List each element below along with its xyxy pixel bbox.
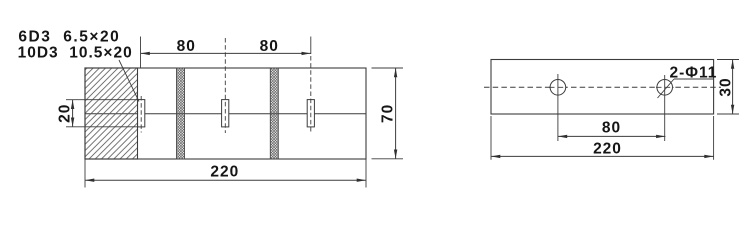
20 dim extension line top xyxy=(66,99,138,101)
svg-text:10D3 10.5×20: 10D3 10.5×20 xyxy=(18,44,133,61)
svg-text:80: 80 xyxy=(260,38,279,55)
right view dashed centerline xyxy=(484,86,721,88)
left view horizontal centerline xyxy=(85,113,366,115)
svg-text:6D3 6.5×20: 6D3 6.5×20 xyxy=(18,29,120,46)
top dim arrow right xyxy=(302,52,311,55)
220 left extension left xyxy=(84,159,86,188)
220 left dim line xyxy=(85,179,366,181)
80 right arrow left xyxy=(558,135,567,138)
70 dim arrow down xyxy=(394,150,397,159)
svg-text:30: 30 xyxy=(718,77,735,96)
slot 3 xyxy=(307,100,314,127)
20 dim line xyxy=(72,100,74,127)
80 right dim line xyxy=(558,135,666,137)
hole 1 dash of centerline inside xyxy=(549,86,567,88)
leader underline xyxy=(674,78,714,80)
crosshatched strip 1 xyxy=(177,68,185,159)
80 right arrow right xyxy=(656,135,665,138)
70 dim extension bottom xyxy=(372,158,404,160)
220 right extension left xyxy=(490,116,492,160)
svg-text:20: 20 xyxy=(57,104,74,123)
20 dim arrow down xyxy=(71,118,74,127)
hole 2 xyxy=(657,80,673,96)
30 dim arrow up xyxy=(731,60,734,69)
slot 2 xyxy=(222,100,229,127)
hole 1 vertical centerline / extension xyxy=(557,74,559,141)
70 dim extension top xyxy=(372,67,404,69)
top dimension line 80+80 xyxy=(141,52,311,54)
svg-text:80: 80 xyxy=(602,119,621,136)
hole 1 xyxy=(550,80,566,96)
hatched end block xyxy=(85,68,138,159)
30 dim extension top xyxy=(717,59,739,61)
svg-text:70: 70 xyxy=(380,104,397,123)
hole 2 dash of centerline inside xyxy=(656,86,674,88)
220 right arrow left xyxy=(491,155,500,158)
20 dim arrow up xyxy=(71,100,74,109)
70 dim line xyxy=(395,68,397,159)
20 dim extension line bottom xyxy=(66,126,138,128)
slot 1 extension line solid xyxy=(140,37,142,69)
70 dim arrow up xyxy=(394,68,397,77)
30 dim extension bottom xyxy=(717,113,739,115)
svg-text:80: 80 xyxy=(177,38,196,55)
slot 2 centerline dashed xyxy=(224,38,226,133)
220 left arrow left xyxy=(85,179,94,182)
220 left extension right xyxy=(365,159,367,188)
top dim arrow left xyxy=(141,52,150,55)
220 left arrow right xyxy=(357,179,366,182)
30 dim arrow down xyxy=(731,105,734,114)
slot 3 extension line solid xyxy=(310,37,312,55)
leader line to slot 1 xyxy=(119,60,139,102)
hole 2 vertical centerline / extension xyxy=(664,75,666,141)
slot 3 centerline dashed xyxy=(310,56,312,133)
220 right arrow right xyxy=(704,155,713,158)
right view body outline xyxy=(491,60,714,115)
svg-text:2-Φ11: 2-Φ11 xyxy=(670,65,718,82)
30 dim line xyxy=(732,60,734,115)
svg-text:220: 220 xyxy=(210,163,239,180)
svg-text:220: 220 xyxy=(593,140,622,157)
220 right extension right xyxy=(713,116,715,160)
leader line through hole 2 xyxy=(658,79,675,98)
slot 1 xyxy=(138,100,145,127)
220 right dim line xyxy=(491,155,714,157)
slot 1 centerline dashed xyxy=(140,96,142,133)
crosshatched strip 2 xyxy=(270,68,278,159)
left view body outline xyxy=(85,68,366,159)
